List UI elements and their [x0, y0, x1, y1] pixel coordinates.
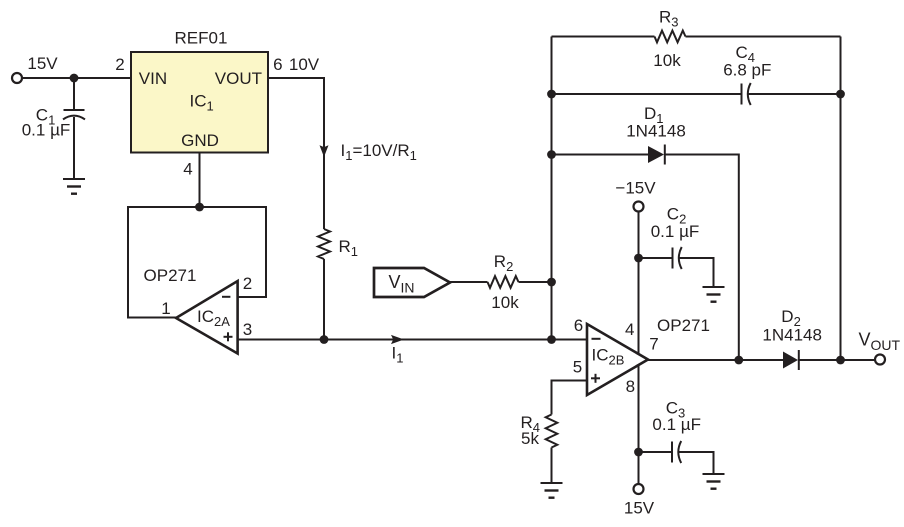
wire IC2B plus input — [552, 381, 588, 415]
wire pin 8 to 15V supply — [638, 366, 640, 485]
plus sign IC2A — [224, 332, 233, 341]
wire D1 to output node — [665, 155, 739, 361]
svg-text:1N4148: 1N4148 — [762, 325, 822, 344]
wire D1 row left — [552, 154, 649, 156]
minus sign IC2A — [222, 296, 230, 298]
plus sign IC2B — [591, 374, 600, 383]
node junction C3 tap — [634, 448, 643, 457]
svg-text:7: 7 — [649, 334, 658, 353]
svg-text:GND: GND — [181, 131, 219, 150]
svg-text:0.1 µF: 0.1 µF — [22, 121, 71, 140]
resistor R4 — [546, 415, 558, 448]
diode D2 — [783, 350, 799, 370]
arrow current direction down — [320, 145, 329, 157]
svg-text:10V: 10V — [289, 55, 320, 74]
wire C1 bottom lead — [73, 117, 75, 179]
svg-text:8: 8 — [626, 377, 635, 396]
svg-text:4: 4 — [183, 160, 192, 179]
resistor R2 — [488, 276, 519, 288]
wire right feedback vertical — [840, 37, 842, 361]
op-amp IC2A (left pointing) — [176, 281, 238, 354]
node junction C4 left — [547, 90, 556, 99]
terminal -15V — [634, 202, 644, 212]
wire summing node vertical — [551, 37, 553, 340]
capacitor C1 — [63, 110, 85, 119]
wire R2 to summing node — [519, 281, 552, 283]
wire REF01 GND pin to buffer output — [199, 153, 201, 208]
svg-text:I1=10V/R1: I1=10V/R1 — [341, 141, 417, 163]
svg-text:6: 6 — [574, 316, 583, 335]
terminal VOUT — [875, 355, 885, 365]
svg-text:3: 3 — [243, 320, 252, 339]
wire VOUT to R1 — [268, 78, 324, 229]
resistor R3 — [655, 31, 686, 43]
wire IC2A plus input to R1 node — [238, 339, 324, 341]
node junction R2 summing — [547, 278, 556, 287]
terminal 15V input — [12, 73, 22, 83]
svg-text:4: 4 — [625, 320, 634, 339]
wire -15V supply to pin 4 — [638, 212, 640, 355]
resistor R1 — [318, 229, 330, 259]
svg-text:10k: 10k — [491, 293, 519, 312]
wire C2 left lead — [639, 257, 673, 259]
wire R4 to ground — [551, 448, 553, 484]
ground C3 — [703, 474, 725, 489]
node junction feedback right at output — [836, 356, 845, 365]
node junction C2 tap — [634, 254, 643, 263]
voltage reference U1 REF01 box — [131, 52, 268, 153]
svg-text:10k: 10k — [653, 51, 681, 70]
wire C4 row right — [747, 93, 841, 95]
svg-text:1N4148: 1N4148 — [626, 121, 686, 140]
diode D1 — [648, 145, 665, 165]
capacitor C2 — [673, 247, 682, 269]
wire R3 feedback top left — [552, 36, 655, 38]
svg-text:2: 2 — [115, 55, 124, 74]
wire C1 top lead — [73, 78, 75, 110]
svg-text:OP271: OP271 — [657, 316, 710, 335]
capacitor C3 — [672, 441, 681, 463]
svg-text:OP271: OP271 — [144, 266, 197, 285]
input tag VIN — [374, 268, 450, 297]
svg-text:VIN: VIN — [139, 69, 167, 88]
wire C2 right lead to ground — [679, 258, 714, 287]
arrow I1 direction — [391, 335, 404, 344]
wire D2 to output terminal — [799, 359, 875, 361]
wire VIN tag to R2 — [450, 281, 488, 283]
wire IC2A feedback loop — [128, 207, 266, 318]
svg-text:1: 1 — [161, 299, 170, 318]
node junction C4 right — [836, 90, 845, 99]
wire R1 bottom to node — [323, 259, 325, 340]
node junction GND pin to feedback loop — [195, 203, 204, 212]
wire C3 right lead to ground — [678, 452, 714, 474]
wire IC2B output — [648, 359, 783, 361]
node junction I1 summing — [547, 335, 556, 344]
svg-text:REF01: REF01 — [175, 29, 228, 48]
ground C2 — [703, 287, 725, 302]
svg-text:0.1 µF: 0.1 µF — [651, 222, 700, 241]
svg-text:R2: R2 — [494, 252, 514, 274]
svg-text:5k: 5k — [521, 429, 539, 448]
wire input to VIN — [23, 77, 132, 79]
svg-text:5: 5 — [573, 358, 582, 377]
op-amp IC2B — [587, 324, 648, 395]
svg-text:I1: I1 — [392, 344, 404, 366]
minus sign IC2B — [592, 338, 601, 340]
ground R4 — [541, 483, 563, 498]
node junction C1 tap — [70, 74, 79, 83]
svg-text:2: 2 — [243, 274, 252, 293]
svg-text:−15V: −15V — [615, 178, 656, 197]
svg-text:VOUT: VOUT — [215, 69, 262, 88]
svg-text:15V: 15V — [624, 499, 655, 518]
svg-text:R3: R3 — [659, 8, 679, 30]
node junction D1 return — [734, 356, 743, 365]
svg-text:0.1 µF: 0.1 µF — [652, 415, 701, 434]
wire C3 left lead — [639, 451, 673, 453]
wire R3 feedback top right — [686, 36, 841, 38]
svg-text:15V: 15V — [27, 54, 58, 73]
svg-text:6.8 pF: 6.8 pF — [723, 61, 771, 80]
svg-text:6: 6 — [273, 55, 282, 74]
svg-text:R1: R1 — [339, 237, 359, 259]
node junction D1 left — [547, 150, 556, 159]
svg-text:VOUT: VOUT — [859, 330, 901, 354]
wire C4 row left — [552, 93, 742, 95]
wire I1 to IC2B minus input — [324, 339, 587, 341]
terminal 15V bottom — [634, 484, 644, 494]
node junction R1 output node — [320, 335, 329, 344]
capacitor C4 — [742, 83, 751, 105]
ground C1 — [63, 179, 85, 194]
